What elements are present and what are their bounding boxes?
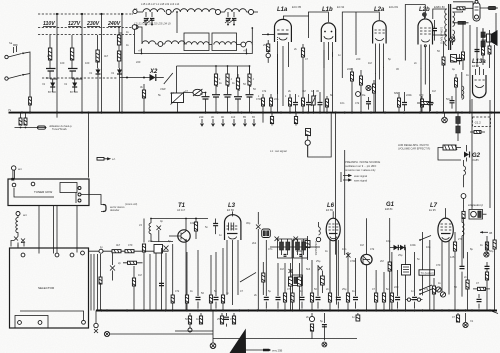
svg-text:very 25B: very 25B (272, 349, 283, 353)
svg-text:Tuner/Tonab.: Tuner/Tonab. (52, 127, 67, 131)
right stack resistor c (485, 272, 488, 280)
svg-text:47k: 47k (424, 287, 429, 291)
svg-text:47k: 47k (175, 289, 180, 293)
resistor beside L1a (267, 44, 270, 52)
wire bottom long from jack (110, 333, 213, 335)
row2 bottom rail (135, 29, 253, 53)
wire bus stub down x57 (56, 113, 58, 118)
svg-text:X1: X1 (110, 71, 115, 75)
wire right column verticals (463, 22, 495, 113)
svg-text:a.f.: a.f. (112, 157, 116, 161)
cap col338 (337, 240, 339, 309)
X mark near can C (289, 269, 293, 273)
resistor column 110V (49, 35, 51, 48)
svg-text:110: 110 (231, 115, 236, 119)
tuner box (8, 179, 89, 206)
trimmer col 313 (313, 90, 315, 112)
IF pill transformer left (262, 229, 271, 238)
coil chain row2 section1 (142, 41, 156, 44)
tube L13a pin wires (476, 67, 484, 75)
svg-text:5k6: 5k6 (306, 267, 311, 271)
coupling circle r2a (156, 43, 158, 45)
trimmer pair right below row1 (228, 12, 234, 17)
resistor col434 (433, 278, 435, 293)
svg-text:47k: 47k (370, 247, 375, 251)
diode X2 (120, 77, 150, 79)
svg-text:470k: 470k (350, 259, 356, 263)
wire col422 (422, 232, 424, 295)
mains switch blade a (8, 54, 22, 58)
TC pot box (405, 248, 407, 265)
wire bus stub x263 below (262, 113, 264, 123)
svg-text:50n: 50n (446, 97, 451, 101)
svg-text:avec signal: avec signal (354, 174, 367, 178)
electrolytic cap C1 (205, 93, 207, 97)
speaker (487, 34, 492, 42)
jack circle left (95, 311, 97, 324)
heater cluster resistor (455, 74, 457, 112)
svg-text:10n: 10n (342, 247, 347, 251)
resistor sel vertical f (99, 277, 102, 284)
coil chain row1 section2 (173, 9, 216, 12)
box with diode sel e (154, 245, 163, 254)
resistor col312 (311, 260, 313, 293)
bus right slope end (490, 311, 498, 314)
resistor right column a (462, 52, 465, 60)
cap col318 (317, 265, 319, 309)
wire left verticals selector edge (91, 254, 101, 311)
notes bracket (340, 172, 342, 182)
wire tap 230V vertical (101, 14, 103, 112)
cluster osc resistor c (373, 80, 375, 112)
coil chain row1 section3 (225, 9, 247, 12)
cluster L6 mid b (298, 277, 302, 286)
svg-text:4k7: 4k7 (104, 54, 109, 58)
lower transformer box (451, 55, 457, 63)
svg-text:1M: 1M (368, 61, 372, 65)
antenna matching X marks (14, 237, 25, 243)
selector inner wire (20, 311, 84, 321)
svg-text:2M: 2M (170, 91, 174, 95)
tube L1a pin wires (278, 16, 310, 106)
wire L2a pins to bus (376, 67, 384, 113)
svg-text:5µ: 5µ (268, 289, 271, 293)
coils in box1 (186, 42, 197, 45)
tube L1b pin wires (308, 12, 332, 68)
mains switch terminal a (5, 55, 8, 58)
jack circle right mid (484, 252, 489, 257)
primary feed resistor (443, 41, 445, 57)
svg-text:47k: 47k (287, 287, 292, 291)
IF can box B (294, 239, 308, 258)
svg-text:EABC 80: EABC 80 (434, 5, 445, 9)
svg-text:AF 117: AF 117 (177, 208, 186, 212)
black triangle wedge (230, 329, 247, 353)
wire extra verticals t1 band (150, 248, 162, 311)
svg-text:4k7: 4k7 (116, 243, 121, 247)
lamp pill (406, 299, 423, 301)
cluster osc circle X (366, 85, 371, 90)
svg-text:220k: 220k (347, 67, 353, 71)
svg-text:-21.2: -21.2 (474, 121, 481, 125)
wire col494 right edge (494, 183, 496, 311)
svg-text:10n: 10n (426, 245, 431, 249)
resistor far right horizontal (488, 6, 496, 9)
resistor below bus a (20, 113, 22, 119)
tube L1a grid feed (262, 33, 275, 35)
transformer primary winding (445, 9, 447, 35)
tube L13a electrodes (475, 79, 485, 81)
switch L7 grid (420, 236, 431, 241)
resistor col494 mid (493, 240, 496, 249)
coil chain row2 section2 (165, 41, 185, 44)
cluster osc resistor b (360, 70, 362, 112)
svg-text:22n: 22n (274, 97, 279, 101)
svg-text:25µ: 25µ (342, 287, 347, 291)
svg-text:PREAMPLI / NOISE SOURCE: PREAMPLI / NOISE SOURCE (345, 160, 380, 164)
secondary to speaker wires (453, 11, 463, 45)
cap col355 (355, 258, 357, 309)
X + resistor col320 (318, 266, 323, 271)
resistor col 271 (270, 94, 272, 112)
svg-text:EL 95: EL 95 (429, 208, 436, 212)
resistor below bus b (25, 113, 27, 119)
notes legend arrow a (343, 175, 351, 177)
tube L13a envelope (473, 75, 487, 98)
tube L2a envelope (373, 21, 387, 44)
below bus resistor bl2 (200, 313, 202, 316)
svg-text:1M: 1M (280, 267, 284, 271)
svg-text:470: 470 (419, 93, 424, 97)
svg-text:decoder: decoder (110, 208, 120, 212)
heater wires right edge (470, 100, 495, 183)
wire row1 drop (176, 12, 178, 33)
tube L2b pin wires (405, 5, 429, 85)
connector bracket stereo (103, 205, 106, 212)
svg-text:TC (tonkor): TC (tonkor) (421, 271, 434, 275)
diode G2 (464, 152, 469, 158)
svg-text:16µ: 16µ (386, 239, 391, 243)
dashed box -21.2V (473, 117, 491, 127)
node circle crossed (442, 117, 448, 123)
arrow 4B (480, 231, 488, 233)
diode pair feed wire (390, 247, 406, 249)
svg-text:L1a: L1a (277, 7, 288, 13)
mains switch blade b (8, 75, 22, 79)
svg-text:47n: 47n (268, 247, 273, 251)
svg-text:sans signal: sans signal (354, 179, 367, 183)
antenna terminal tuner (12, 166, 16, 170)
svg-text:10k: 10k (190, 221, 195, 225)
svg-text:220: 220 (356, 57, 361, 61)
svg-text:470k: 470k (256, 97, 262, 101)
wire mains dashed rail 4 (42, 77, 118, 79)
electrolytic cap C5 (246, 94, 254, 96)
tone switch box label (419, 270, 435, 275)
wire tap 110V vertical (56, 14, 58, 112)
resistor col467 (467, 252, 469, 280)
cap col216 (215, 252, 217, 309)
wire L1b pin to bus (324, 50, 332, 113)
volume pot circle b (440, 292, 445, 297)
long mid verticals (308, 113, 345, 255)
resistor sel horizontal c (128, 261, 137, 264)
coupling circle 3 (246, 11, 248, 13)
resistor col292 low (292, 240, 294, 293)
tone switch blades (420, 285, 432, 294)
svg-text:ant: ant (18, 167, 22, 171)
resistor right column c (482, 47, 485, 55)
svg-text:10n: 10n (340, 101, 345, 105)
resistor col263 low (262, 262, 264, 295)
selector inner sub-box (15, 316, 48, 329)
cap col302 (301, 240, 303, 309)
resistor below X2 line (143, 84, 145, 90)
svg-text:5µ: 5µ (320, 319, 323, 323)
tube L6 electrodes (329, 224, 339, 230)
triangle output arrow (246, 349, 263, 351)
tuner terminal circles right (78, 187, 81, 190)
resistor col330 (329, 240, 331, 293)
svg-text:125: 125 (450, 255, 455, 259)
tube L3 electrodes (227, 225, 238, 227)
antenna to selector wire (17, 245, 19, 249)
diode d1 (394, 245, 399, 250)
wire mains dashed rail 3 (38, 34, 134, 36)
cap right of L2b (434, 20, 436, 41)
svg-text:2M: 2M (380, 259, 384, 263)
resistor T1 a (143, 219, 145, 243)
cap col414 (414, 252, 416, 309)
svg-text:ECC 85: ECC 85 (292, 5, 302, 9)
resistor feed C2 (215, 66, 217, 74)
wire af arrow (97, 158, 104, 161)
resistor osc mid (388, 262, 391, 271)
tuner socket circle a (12, 183, 16, 187)
wire join below bus (15, 127, 37, 129)
svg-text:25µ: 25µ (398, 253, 403, 257)
voltage test arrows below bus (199, 115, 256, 126)
tube L1b electrodes (324, 31, 326, 33)
svg-text:1M: 1M (302, 89, 306, 93)
node circle sel1 (99, 249, 103, 253)
mid stub component a (271, 113, 273, 117)
resistor col187 (186, 252, 188, 295)
svg-text:LDR REGELSPG. PHOTO: LDR REGELSPG. PHOTO (398, 143, 429, 147)
resistor col 426 horizontal pair (421, 102, 430, 105)
coil chain row2 tail (246, 41, 253, 44)
resistor col 263 (262, 94, 264, 112)
svg-text:100: 100 (60, 61, 65, 65)
svg-text:X1: X1 (470, 319, 474, 323)
svg-text:Ra: Ra (362, 93, 366, 97)
capacitor C mains 110V (46, 69, 56, 72)
svg-text:ECH 81: ECH 81 (389, 5, 399, 9)
cap col 308 (308, 94, 310, 112)
resistor stack dark b (456, 126, 460, 133)
wire osc col390 (389, 218, 391, 311)
diode X below jack (94, 329, 98, 333)
svg-text:L15 L16 L17 L1 L1: L15 L16 L17 L1 L18 L19 L13 L14 (141, 2, 180, 6)
resistor top right horizontal (457, 7, 465, 10)
stub +8 left (141, 49, 143, 54)
LDR hatched resistor (443, 145, 456, 150)
L7 cathode resistor (454, 232, 456, 242)
circles at selen top (475, 0, 478, 3)
svg-text:25µ: 25µ (316, 259, 321, 263)
fuse pill (38, 126, 46, 129)
svg-text:100: 100 (85, 61, 90, 65)
svg-text:L2b: L2b (419, 7, 430, 13)
tube L3 pins (227, 211, 238, 305)
right stack resistor a (485, 242, 488, 250)
X diode 276 (275, 237, 280, 242)
wire mains dashed top rail (38, 13, 133, 15)
bottom bus dots (100, 309, 491, 311)
svg-text:EF 89: EF 89 (326, 208, 333, 212)
below bus resistor bl1 (189, 313, 191, 316)
cluster L6 mid a (289, 277, 293, 286)
transformer secondary winding 2 (453, 30, 455, 40)
svg-text:Sa: Sa (9, 41, 13, 45)
svg-text:68k: 68k (394, 91, 399, 95)
cap col 295 (295, 94, 297, 112)
small circle node (461, 194, 466, 199)
wire selector-right rail (89, 250, 169, 252)
trimmer pair left below row1 (146, 12, 152, 17)
cap col198 (197, 250, 199, 309)
resistor feed C3 (227, 66, 229, 74)
IF can box 1 (184, 33, 209, 51)
below bus jack circle m3 (322, 342, 327, 347)
mid box component (306, 129, 311, 136)
svg-text:1M: 1M (138, 273, 142, 277)
anode cap circle L2b (424, 45, 426, 47)
tube L1a electrodes (277, 29, 289, 31)
resistor right of stack (474, 131, 481, 134)
svg-text:1M: 1M (360, 243, 364, 247)
tube L1b envelope (321, 23, 335, 42)
svg-text:X1: X1 (41, 82, 46, 86)
anode cap circle L2b top (422, 13, 426, 17)
coils in box2 (214, 42, 225, 45)
cluster osc resistor a (351, 68, 353, 112)
cap col397 (397, 270, 399, 309)
resistor col 399 (398, 92, 400, 112)
svg-text:TUNER UKW: TUNER UKW (34, 190, 52, 194)
tube L3 envelope (225, 215, 241, 240)
vertical to jack2 (212, 311, 214, 344)
fuse feed resistor (463, 208, 465, 211)
electrolytic cap C4 (234, 96, 242, 98)
L7 grid cap (461, 238, 463, 297)
wire row2 from circle (137, 27, 142, 44)
resistor col223 (222, 248, 224, 295)
svg-text:(mono vol): (mono vol) (125, 202, 137, 206)
resistor col211 (210, 255, 212, 295)
transistor T1 (178, 230, 190, 242)
volume pot circle a (436, 287, 441, 292)
svg-text:1A (autom): 1A (autom) (468, 203, 483, 207)
wire L1a pins to bus (277, 54, 279, 113)
wire L2b pins to bus (421, 68, 430, 113)
resistor col 422 (421, 96, 423, 112)
svg-text:EF 80: EF 80 (227, 208, 234, 212)
bus junction dots (21, 111, 493, 113)
svg-text:7s: 7s (8, 108, 12, 112)
resistor column 230V (97, 35, 99, 50)
resistor sel horizontal a (112, 250, 121, 253)
wire grid line y331 (175, 330, 213, 332)
bottom chassis bus (96, 310, 497, 312)
svg-text:X1: X1 (63, 82, 68, 86)
choke coil below (463, 160, 465, 166)
resistor col384 (383, 272, 385, 293)
svg-text:(VOLUME CAR EFFECT R): (VOLUME CAR EFFECT R) (398, 147, 430, 151)
heater cluster cap (451, 96, 453, 109)
resistor col348 (347, 252, 349, 293)
resistor mid col318 coil (318, 222, 320, 227)
wire switch to transformer (23, 52, 30, 112)
coupling circle 2 (216, 10, 221, 15)
resistor col 290 (289, 94, 291, 112)
svg-text:220: 220 (136, 60, 141, 64)
speaker matching resistor b (481, 41, 485, 47)
X diode 258 (256, 212, 261, 311)
svg-text:470: 470 (436, 263, 441, 267)
antenna coil (16, 216, 18, 235)
below bus component m4 (357, 313, 359, 315)
svg-text:8µ: 8µ (470, 247, 473, 251)
tube L7 electrodes (441, 224, 452, 230)
tube L1a envelope (275, 19, 292, 42)
cap col266 (265, 240, 267, 309)
LDR loop wires (438, 148, 461, 161)
tube L2b electrodes (420, 27, 431, 29)
tube L2a electrodes (375, 29, 385, 31)
svg-text:240: 240 (199, 115, 204, 119)
cluster cap d (368, 97, 370, 110)
IF can A coils (280, 242, 284, 250)
resistor sel vertical d (133, 266, 135, 278)
switch actuator marks (13, 45, 18, 53)
wire G2 vertical (466, 145, 468, 162)
coil chain row1 section1 (138, 11, 144, 13)
fuse above bus left (29, 97, 32, 105)
diode X sel (110, 266, 115, 271)
grid rail L6 (270, 246, 320, 248)
resistor col392 (391, 252, 393, 293)
wire mains dashed rail 2 (38, 27, 134, 29)
cap T1 c (215, 219, 217, 235)
T1 coil trimmer X (157, 226, 162, 243)
wire tap 127V vertical (81, 14, 83, 112)
svg-text:470: 470 (128, 243, 133, 247)
resistor beside L1b (301, 48, 304, 57)
cap right column b (475, 50, 480, 52)
svg-text:100k: 100k (410, 243, 416, 247)
mains plug terminal top (133, 9, 137, 13)
resistor stack dark a (457, 113, 459, 117)
resistor sel horizontal b (125, 250, 134, 253)
transformer primary winding lower (445, 31, 447, 45)
svg-text:TS: TS (134, 7, 138, 11)
svg-text:100Hz TRAFO: 100Hz TRAFO (440, 27, 444, 44)
resistor col156 low (172, 244, 174, 295)
resistor col 303 (302, 94, 304, 112)
trimmer box (172, 93, 184, 103)
resistor col285 (284, 263, 286, 293)
